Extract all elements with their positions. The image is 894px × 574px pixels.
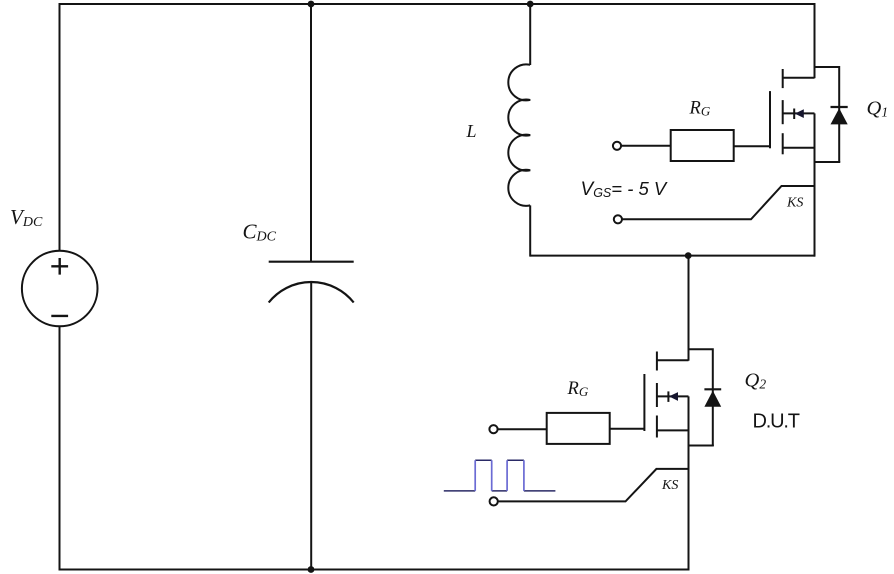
Q1 source vertical	[814, 113, 816, 256]
Q2 body lead with arrow	[657, 395, 689, 397]
svg-text:RG: RG	[567, 379, 589, 399]
inductor L	[508, 64, 530, 205]
diode D2 (body diode of Q2)	[704, 389, 721, 407]
Q2 channel dash 1	[656, 352, 658, 371]
svg-text:CDC: CDC	[243, 219, 277, 244]
terminal Q1 KS input	[614, 186, 815, 223]
wire Q1 diode top branch	[814, 66, 840, 163]
node capacitor-top junction	[308, 1, 315, 8]
svg-text:KS: KS	[661, 478, 678, 493]
capacitor C_DC	[269, 262, 354, 303]
Q2 channel dash 2	[656, 383, 658, 407]
wire top rail	[60, 3, 815, 5]
Q1 channel dash 2	[782, 100, 784, 124]
Q2 gate lead	[610, 428, 645, 430]
wire Q2 drain vertical	[688, 256, 690, 361]
svg-text:VDC: VDC	[10, 205, 43, 230]
resistor RG (Q1)	[671, 130, 734, 161]
node capacitor-bottom junction	[308, 566, 315, 573]
diode D1 (body diode of Q1)	[831, 107, 848, 124]
resistor RG (Q2)	[547, 413, 610, 444]
wire capacitor bottom	[310, 282, 312, 570]
MOSFET Q2	[610, 352, 689, 571]
pulse waveform source	[444, 460, 556, 491]
Q2 source lead	[657, 429, 689, 431]
svg-text:RG: RG	[689, 98, 711, 118]
node inductor-top junction	[527, 1, 534, 8]
terminal Q1 gate input	[613, 142, 671, 150]
Q1 body lead with arrow	[783, 112, 815, 114]
node mid-rail junction	[685, 252, 692, 259]
wire Q2 diode top branch	[688, 348, 713, 446]
wire Q1 drain vertical	[814, 3, 816, 78]
Q1 gate lead	[734, 145, 770, 147]
wire inductor bottom	[529, 205, 531, 256]
wire capacitor top	[310, 4, 312, 262]
wire left top (VDC to top rail)	[59, 3, 61, 251]
wire Q1 diode bottom branch	[814, 161, 841, 163]
svg-text:L: L	[466, 121, 477, 141]
Q2 source vertical	[688, 396, 690, 570]
wire left bottom (VDC to bottom rail)	[59, 326, 61, 570]
svg-text:KS: KS	[786, 196, 803, 211]
Q2 drain lead	[657, 359, 689, 361]
wire Q2 KS path	[498, 469, 689, 502]
wire mid rail	[530, 255, 815, 257]
terminal Q2 gate input	[489, 425, 546, 433]
svg-text:Q1: Q1	[867, 98, 889, 120]
Q1 drain lead	[783, 77, 815, 79]
wire Q2 diode bottom branch	[688, 445, 714, 447]
Q1 source lead	[783, 147, 815, 149]
wire Q1 KS path	[622, 186, 814, 219]
terminal Q2 KS input	[490, 469, 689, 506]
Q1 channel dash 3	[782, 133, 784, 154]
svg-text:VGS= - 5 V: VGS= - 5 V	[581, 178, 668, 200]
svg-text:D.U.T: D.U.T	[753, 410, 800, 432]
Q2 channel dash 3	[656, 416, 658, 438]
wire inductor top	[529, 4, 531, 65]
Q1 gate plate	[769, 91, 771, 148]
wire bottom rail	[60, 569, 689, 571]
Q1 channel dash 1	[782, 69, 784, 88]
svg-text:Q2: Q2	[745, 369, 767, 391]
voltage source V_DC	[22, 251, 98, 327]
MOSFET Q1	[734, 69, 815, 257]
Q2 gate plate	[643, 374, 645, 431]
